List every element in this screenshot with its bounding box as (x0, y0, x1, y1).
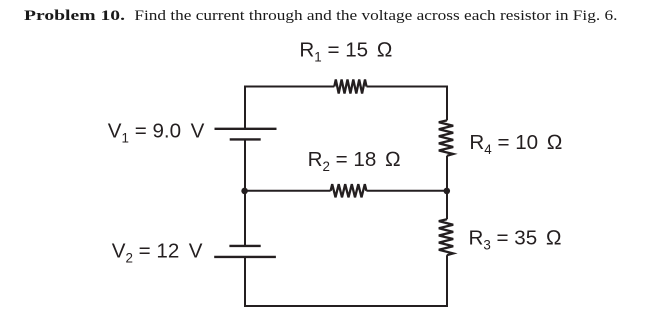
wire: right vertical from top corner to R4 (446, 86, 448, 121)
wire: left vertical from V1 to middle node (244, 139, 246, 190)
resistor R3 zigzag (439, 219, 453, 255)
wire: top-left horizontal segment (245, 86, 334, 88)
wire: top-right horizontal segment (367, 86, 448, 88)
wire: left vertical from V2 to bottom corner (244, 257, 246, 307)
svg-text:R2 = 18Ω: R2 = 18Ω (308, 148, 401, 174)
node A junction dot (left middle) (241, 188, 248, 195)
battery V2 short plate (229, 245, 260, 247)
svg-text:R3 = 35Ω: R3 = 35Ω (469, 227, 562, 253)
wire: right vertical from R4 to middle node (446, 156, 448, 191)
wire: right vertical from R3 to bottom corner (446, 255, 448, 307)
svg-text:V2 = 12V: V2 = 12V (112, 239, 203, 265)
wire: left vertical from top corner to V1 (244, 86, 246, 129)
resistor R4 zigzag (439, 120, 453, 155)
battery V1 short plate (230, 138, 261, 140)
svg-text:R1 = 15Ω: R1 = 15Ω (299, 39, 392, 65)
wire: right vertical from middle node to R3 (446, 191, 448, 220)
battery V2 long plate (214, 256, 276, 258)
svg-text:Find the current through and t: Find the current through and the voltage… (134, 8, 617, 24)
wire: left vertical from middle node to V2 (244, 191, 246, 246)
wire: middle-left horizontal segment (245, 190, 331, 192)
resistor R1 zigzag (334, 80, 366, 94)
wire: middle-right horizontal segment (366, 190, 447, 192)
node B junction dot (right middle) (444, 188, 451, 195)
svg-text:V1 = 9.0V: V1 = 9.0V (108, 120, 205, 146)
wire: bottom horizontal segment (244, 305, 448, 307)
svg-text:Problem 10.: Problem 10. (24, 8, 125, 24)
resistor R2 zigzag (331, 184, 367, 197)
battery V1 long plate (215, 128, 277, 130)
svg-text:R4 = 10Ω: R4 = 10Ω (469, 131, 562, 157)
